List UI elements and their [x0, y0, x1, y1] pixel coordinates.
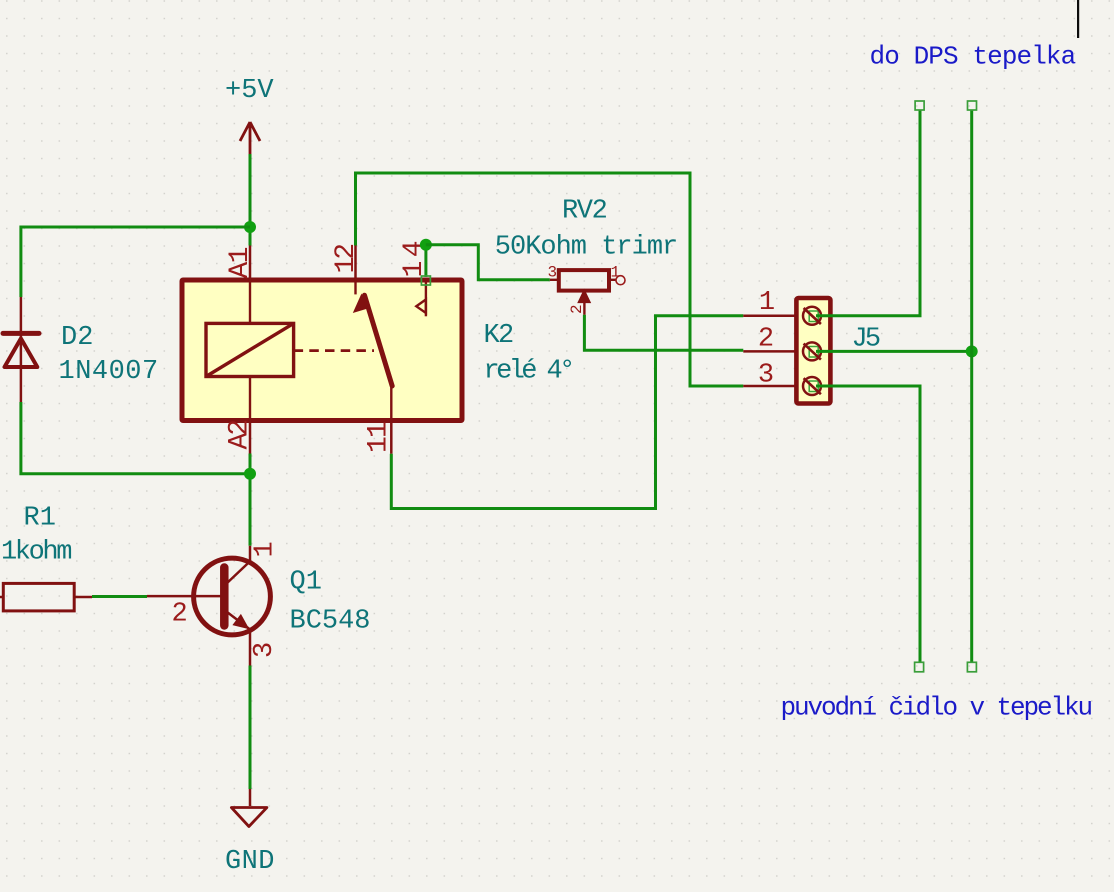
diode D2 triangle [5, 339, 38, 368]
trimmer RV2 pin 1 circle [616, 276, 625, 285]
svg-text:relé 4°: relé 4° [484, 357, 572, 387]
transistor Q1 base bar [220, 568, 229, 626]
diode D2 pin line [20, 297, 23, 402]
wire end square inside screw 2 [809, 347, 818, 358]
wire J5 screw3 right then down [816, 386, 920, 662]
connector J5 pin 2 [743, 350, 796, 353]
relay K2 pin 12 [354, 246, 357, 281]
svg-text:50Kohm trimr: 50Kohm trimr [495, 233, 677, 263]
transistor Q1 collector pin [249, 546, 252, 561]
ground pin [249, 789, 252, 806]
transistor Q1 emitter diagonal [225, 611, 249, 630]
junction at A2 / diode / collector [244, 468, 256, 480]
wire +5V vertical [249, 154, 252, 246]
sheet frame border segment [1077, 0, 1079, 38]
wire pin12 up and over to pin3 of J5 [356, 173, 744, 386]
svg-text:1N4007: 1N4007 [59, 357, 159, 387]
relay K2 coil rectangle [206, 323, 294, 376]
svg-text:2: 2 [568, 304, 586, 314]
resistor R1 left pin stub [0, 596, 3, 599]
wire end square bottom right [967, 662, 976, 672]
power +5V symbol arrow [240, 122, 260, 154]
svg-text:Q1: Q1 [290, 568, 322, 598]
relay K2 pin 14 contact triangle [416, 300, 426, 314]
svg-text:A1: A1 [225, 247, 256, 278]
connector J5 screw terminal 1 [803, 307, 821, 325]
connector J5 screw terminal 3 [803, 377, 821, 395]
relay K2 pin A1 [249, 246, 252, 281]
relay K2 pin A2 [249, 421, 252, 454]
trimmer RV2 body [559, 270, 609, 291]
wire end square at pin 14 [421, 276, 430, 285]
wire junction to trimmer pin 3 [426, 245, 550, 280]
connector J5 screw terminal 2 [803, 342, 821, 360]
connector J5 pin 1 [743, 315, 796, 318]
wire end square bottom left [915, 662, 924, 672]
svg-text:A2: A2 [224, 421, 255, 450]
relay K2 internal pin A2 line [249, 377, 251, 421]
trimmer RV2 pin 1 stub [611, 279, 617, 281]
relay K2 internal pin 11 line [390, 386, 392, 421]
svg-text:R1: R1 [24, 504, 56, 534]
relay K2 internal pin 14 line [425, 282, 427, 316]
svg-text:1kohm: 1kohm [1, 538, 71, 568]
wire end square top right [968, 101, 977, 110]
relay K2 switch arm [365, 295, 393, 386]
wire trimmer wiper to J5 pin 2 [584, 315, 743, 351]
wire end square inside screw 1 [809, 311, 818, 322]
resistor R1 right pin [74, 596, 92, 599]
wire J5 screw2 right to vertical bus [816, 350, 972, 353]
svg-text:3: 3 [758, 361, 774, 391]
junction on right vertical bus [966, 345, 978, 357]
svg-text:3: 3 [250, 642, 280, 658]
svg-text:K2: K2 [484, 321, 513, 351]
svg-text:11: 11 [364, 422, 395, 453]
svg-text:RV2: RV2 [562, 197, 607, 227]
relay K2 internal pin 12 stub [354, 280, 356, 294]
connector J5 pin 3 [743, 385, 796, 388]
svg-text:D2: D2 [61, 323, 93, 353]
svg-text:12: 12 [331, 245, 362, 274]
relay K2 coil diagonal [206, 323, 294, 376]
svg-text:1: 1 [611, 264, 621, 282]
wire pin14 to junction [424, 245, 427, 277]
wire emitter to GND [249, 666, 252, 790]
ground symbol triangle [231, 808, 267, 827]
svg-text:1: 1 [250, 541, 280, 557]
relay K2 internal pin A1 line [249, 280, 251, 323]
wire resistor to Q1 base [92, 595, 147, 598]
svg-text:2: 2 [758, 325, 774, 355]
trimmer RV2 wiper arrow [577, 289, 591, 304]
wire diode bottom to A2 junction [21, 402, 250, 474]
wire to diode top [21, 227, 250, 297]
resistor R1 body [3, 583, 74, 611]
transistor Q1 emitter arrowhead [232, 614, 249, 629]
svg-text:puvodní čidlo v tepelku: puvodní čidlo v tepelku [781, 693, 1092, 723]
svg-text:3: 3 [548, 264, 558, 282]
transistor Q1 emitter pin [249, 629, 252, 666]
junction at +5V branch [244, 221, 256, 233]
svg-text:2: 2 [172, 600, 188, 630]
relay K2 body [182, 280, 462, 421]
relay K2 switch arm arrowhead [353, 294, 367, 314]
svg-text:BC548: BC548 [290, 607, 371, 637]
transistor Q1 base pin [147, 595, 221, 598]
relay K2 dashed actuator line [294, 349, 374, 352]
diode D2 cathode bar [3, 331, 39, 336]
relay K2 pin 11 [390, 421, 393, 454]
wire J5 screw1 right then up [816, 110, 920, 316]
wire pin 11 down and over to J5 pin 1 [391, 316, 743, 509]
trimmer RV2 wiper stem [583, 303, 585, 315]
wire right vertical bus top-to-bottom [970, 110, 973, 662]
wire end square top left [915, 101, 924, 110]
wire end square inside screw 3 [809, 381, 818, 392]
svg-text:+5V: +5V [225, 76, 274, 106]
wire A2 junction down to Q1 collector [249, 454, 252, 546]
svg-text:1: 1 [759, 288, 775, 318]
junction at pin 14 [420, 239, 432, 251]
transistor Q1 collector diagonal [226, 561, 250, 584]
svg-text:do DPS tepelka: do DPS tepelka [870, 42, 1076, 72]
trimmer RV2 pin 3 stub [550, 279, 557, 281]
connector J5 body [796, 298, 830, 404]
transistor Q1 circle [194, 558, 271, 635]
svg-text:GND: GND [225, 847, 275, 877]
